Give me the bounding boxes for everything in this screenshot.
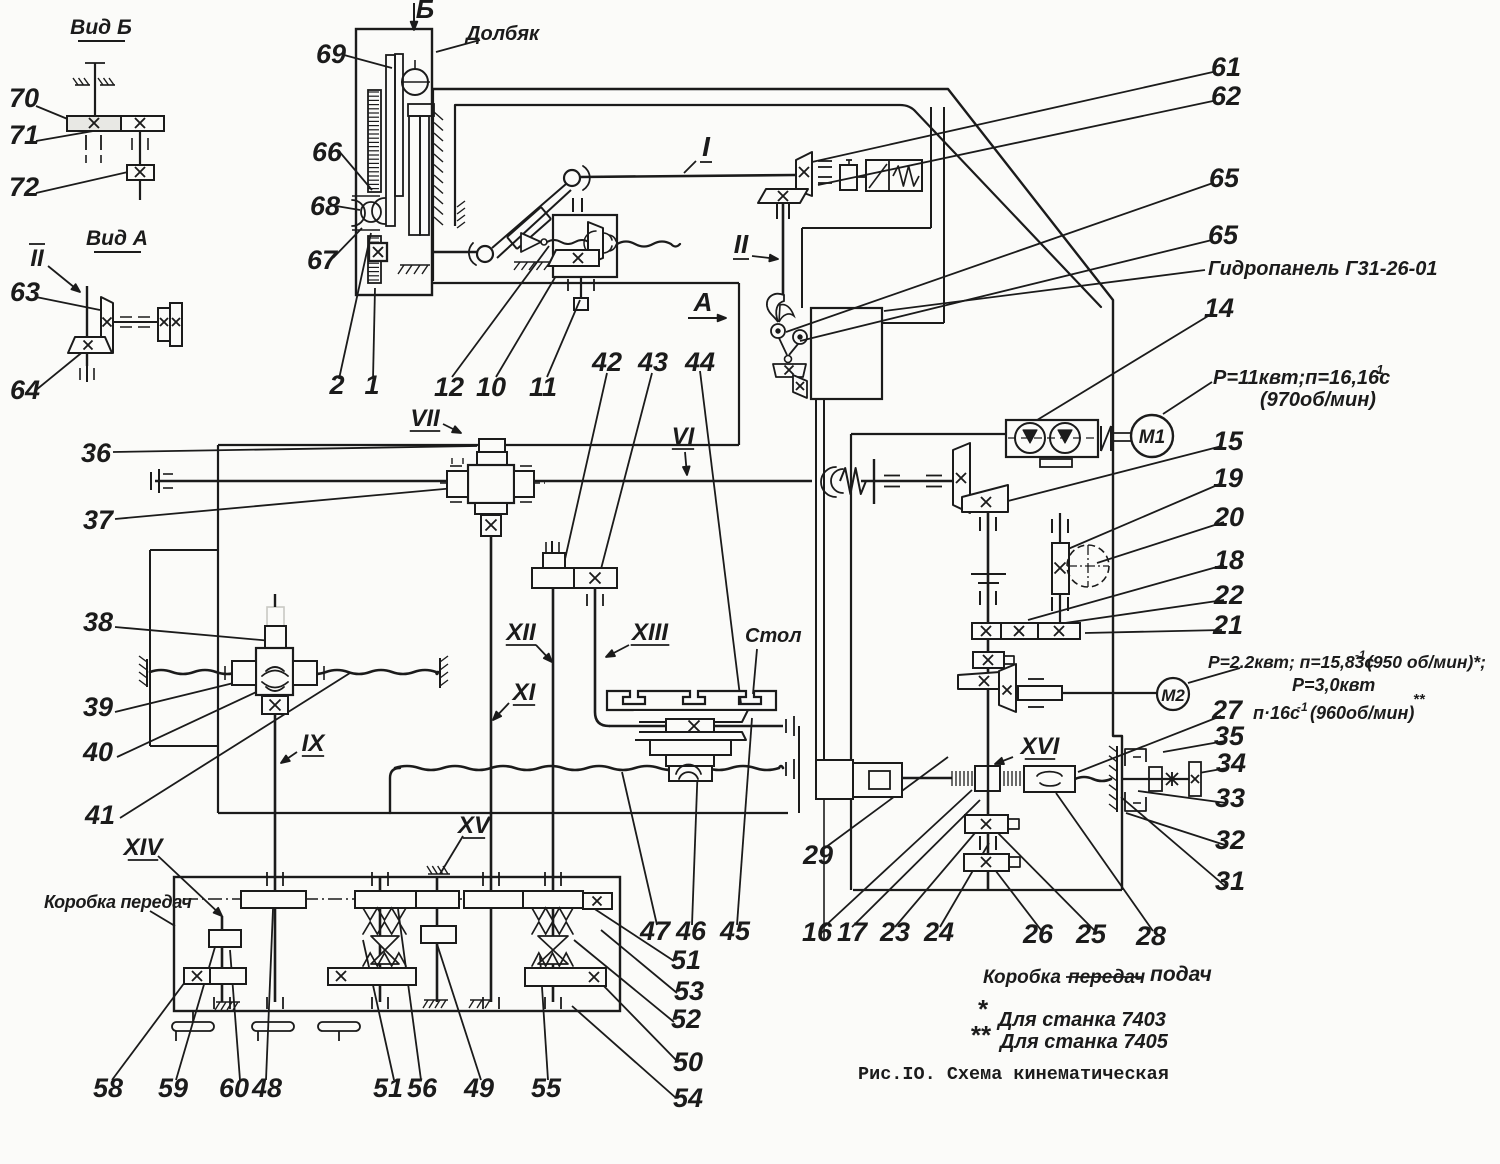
svg-text:2: 2	[328, 370, 344, 400]
svg-text:Долбяк: Долбяк	[464, 23, 540, 45]
svg-text:**: **	[1413, 691, 1426, 708]
svg-text:60: 60	[219, 1073, 249, 1103]
svg-text:22: 22	[1213, 580, 1244, 610]
svg-text:-1: -1	[1355, 648, 1366, 662]
svg-text:51: 51	[373, 1073, 403, 1103]
svg-text:XIV: XIV	[122, 834, 165, 861]
svg-text:10: 10	[476, 372, 506, 402]
svg-text:(970об/мин): (970об/мин)	[1260, 389, 1376, 411]
svg-text:18: 18	[1214, 545, 1244, 575]
svg-text:48: 48	[251, 1073, 282, 1103]
svg-text:Рис.IО. Схема кинематическая: Рис.IО. Схема кинематическая	[858, 1064, 1169, 1085]
svg-text:62: 62	[1211, 81, 1241, 111]
svg-text:64: 64	[10, 375, 40, 405]
svg-text:39: 39	[83, 692, 113, 722]
svg-text:65: 65	[1209, 163, 1240, 193]
svg-text:72: 72	[9, 172, 39, 202]
svg-text:70: 70	[9, 83, 39, 113]
svg-text:п·16с: п·16с	[1253, 703, 1300, 723]
svg-text:Для станка 7403: Для станка 7403	[996, 1009, 1166, 1031]
svg-text:50: 50	[673, 1047, 703, 1077]
svg-text:59: 59	[158, 1073, 188, 1103]
svg-text:43: 43	[637, 347, 668, 377]
svg-text:16: 16	[802, 917, 833, 947]
svg-text:44: 44	[684, 347, 715, 377]
svg-text:19: 19	[1213, 463, 1243, 493]
svg-text:1: 1	[364, 370, 379, 400]
svg-text:XII: XII	[504, 619, 537, 646]
svg-text:Для станка 7405: Для станка 7405	[998, 1031, 1169, 1053]
svg-text:I: I	[702, 131, 711, 162]
svg-text:20: 20	[1213, 502, 1244, 532]
svg-text:58: 58	[93, 1073, 123, 1103]
svg-text:40: 40	[82, 737, 113, 767]
svg-text:IX: IX	[302, 730, 327, 757]
svg-text:XI: XI	[511, 679, 537, 706]
svg-text:Вид Б: Вид Б	[70, 16, 132, 39]
svg-text:(950 об/мин)*;: (950 об/мин)*;	[1367, 652, 1486, 672]
svg-text:М1: М1	[1139, 427, 1165, 448]
svg-text:54: 54	[673, 1083, 703, 1113]
svg-text:71: 71	[9, 120, 39, 150]
svg-text:52: 52	[671, 1004, 701, 1034]
svg-text:14: 14	[1204, 293, 1234, 323]
svg-text:41: 41	[84, 800, 115, 830]
svg-text:38: 38	[83, 607, 113, 637]
svg-text:33: 33	[1215, 783, 1245, 813]
svg-text:23: 23	[879, 917, 910, 947]
svg-text:49: 49	[463, 1073, 494, 1103]
svg-text:42: 42	[591, 347, 622, 377]
svg-text:63: 63	[10, 277, 40, 307]
svg-text:Гидропанель Г31-26-01: Гидропанель Г31-26-01	[1208, 258, 1438, 280]
svg-text:55: 55	[531, 1073, 562, 1103]
svg-text:А: А	[693, 287, 713, 317]
svg-text:Р=3,0квт: Р=3,0квт	[1292, 675, 1375, 695]
svg-text:VI: VI	[672, 423, 696, 450]
svg-text:53: 53	[674, 976, 704, 1006]
svg-text:21: 21	[1212, 610, 1243, 640]
svg-text:Р=2.2квт; п=15,83с: Р=2.2квт; п=15,83с	[1208, 652, 1374, 672]
svg-text:34: 34	[1216, 748, 1246, 778]
svg-text:56: 56	[407, 1073, 438, 1103]
svg-text:28: 28	[1135, 921, 1166, 951]
svg-text:Стол: Стол	[745, 625, 802, 647]
svg-text:66: 66	[312, 137, 343, 167]
svg-text:47: 47	[639, 916, 672, 946]
svg-text:Коробка передач: Коробка передач	[44, 892, 192, 912]
svg-text:VII: VII	[410, 405, 441, 432]
svg-text:-1: -1	[1297, 700, 1308, 714]
svg-text:Р=11квт;п=16,16с: Р=11квт;п=16,16с	[1213, 367, 1390, 389]
svg-text:51: 51	[671, 945, 701, 975]
svg-text:Б: Б	[416, 0, 434, 24]
svg-text:II: II	[734, 229, 749, 259]
svg-text:68: 68	[310, 191, 340, 221]
svg-text:45: 45	[719, 916, 751, 946]
svg-text:37: 37	[83, 505, 115, 535]
svg-text:Вид А: Вид А	[86, 227, 148, 250]
svg-text:**: **	[970, 1020, 992, 1050]
svg-text:(960об/мин): (960об/мин)	[1310, 703, 1414, 723]
svg-text:-1: -1	[1372, 362, 1384, 377]
svg-text:24: 24	[923, 917, 954, 947]
svg-text:32: 32	[1215, 825, 1245, 855]
svg-text:36: 36	[81, 438, 112, 468]
svg-text:М2: М2	[1161, 686, 1185, 705]
svg-text:II: II	[30, 245, 45, 272]
svg-text:25: 25	[1075, 919, 1107, 949]
svg-text:17: 17	[837, 917, 869, 947]
svg-text:31: 31	[1215, 866, 1245, 896]
svg-text:67: 67	[307, 245, 339, 275]
svg-text:29: 29	[802, 840, 833, 870]
svg-text:61: 61	[1211, 52, 1241, 82]
svg-text:XVI: XVI	[1019, 733, 1061, 760]
svg-text:46: 46	[675, 916, 707, 946]
svg-text:15: 15	[1213, 426, 1244, 456]
svg-text:35: 35	[1214, 721, 1245, 751]
svg-text:Коробка: Коробка	[983, 967, 1061, 988]
svg-text:26: 26	[1022, 919, 1054, 949]
svg-text:подач: подач	[1150, 963, 1212, 986]
svg-text:XV: XV	[456, 812, 492, 839]
svg-text:65: 65	[1208, 220, 1239, 250]
svg-text:XIII: XIII	[630, 619, 669, 646]
svg-text:11: 11	[529, 372, 557, 402]
svg-text:12: 12	[434, 372, 464, 402]
svg-text:69: 69	[316, 39, 346, 69]
